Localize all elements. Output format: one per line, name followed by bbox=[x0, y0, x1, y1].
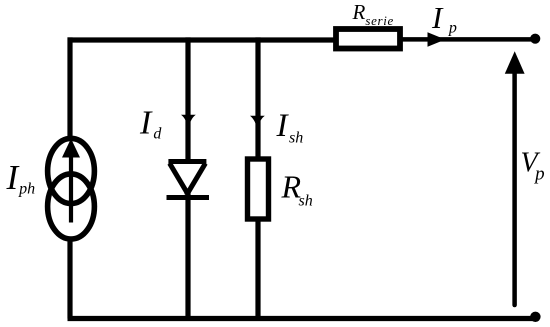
arrowhead Id (current into diode) bbox=[181, 115, 196, 129]
current source arrow (pointing up) bbox=[62, 139, 80, 223]
wire shunt branch lower bbox=[255, 219, 260, 319]
wire top right (box to output dot) bbox=[400, 37, 535, 42]
resistor Rserie (box on top rail) bbox=[336, 29, 400, 49]
wire diode branch lower bbox=[185, 194, 190, 319]
wire bottom horizontal (ground rail) bbox=[68, 316, 536, 321]
voltage arrow Vp (pointing up) bbox=[505, 51, 525, 305]
wire left vertical lower (source to bottom rail) bbox=[67, 241, 72, 319]
current source Iph (two overlapping ellipses) bbox=[48, 138, 95, 239]
diode D (triangle) bbox=[169, 159, 207, 196]
arrowhead Ip (output current) bbox=[428, 32, 446, 47]
wire left vertical upper (source to top rail) bbox=[67, 37, 72, 139]
wire diode branch upper bbox=[185, 37, 190, 163]
node dot output - bbox=[530, 312, 540, 322]
resistor Rsh (box) bbox=[248, 159, 269, 219]
wire top horizontal (node A to output) bbox=[68, 37, 341, 42]
node dot output + bbox=[530, 34, 540, 44]
arrowhead Ish (current into shunt) bbox=[250, 116, 265, 130]
wire shunt branch upper bbox=[255, 37, 260, 158]
diode cathode bar bbox=[167, 195, 210, 200]
